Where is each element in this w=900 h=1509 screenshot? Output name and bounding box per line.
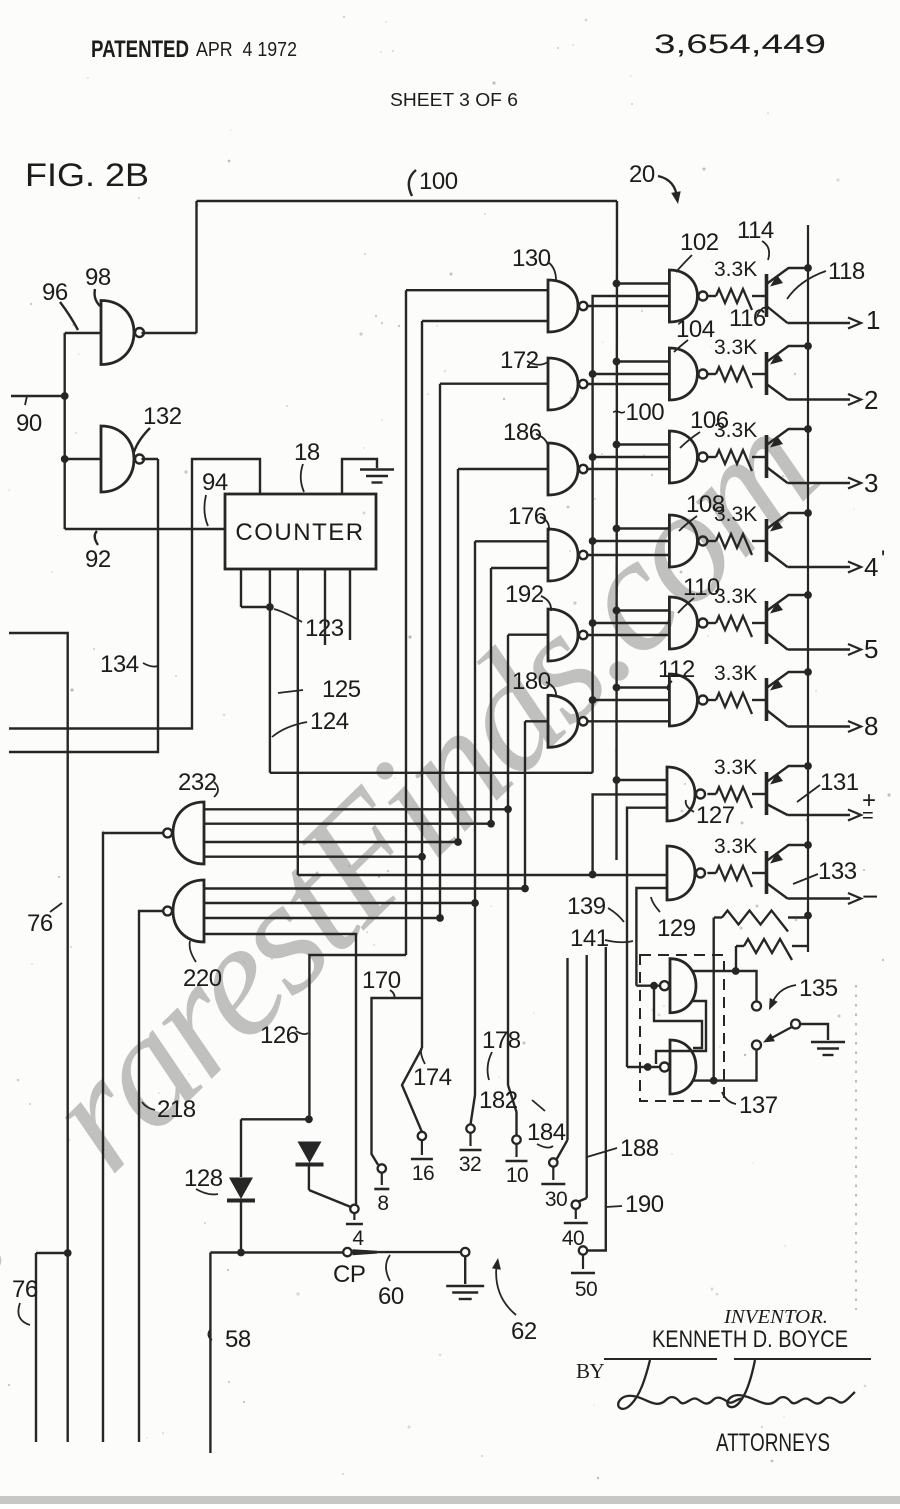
switch contact 30 (549, 1158, 557, 1166)
svg-text:3: 3 (864, 468, 878, 498)
leader 116 (757, 308, 766, 316)
junction 232 input 2 (487, 820, 495, 828)
svg-text:76: 76 (12, 1276, 38, 1303)
bus vertical from gate 186 input (457, 469, 459, 842)
wire 232 input 3 (204, 841, 458, 843)
svg-text:30: 30 (545, 1188, 567, 1211)
junction rail emitter row 110 (804, 591, 812, 599)
wire collector output row 127 (788, 814, 851, 816)
wire diode 126 to contact 4 (309, 1190, 351, 1207)
leader arrow 135 (771, 985, 796, 1006)
emitter arrow Q-129 (770, 852, 783, 864)
wire diode 128 anode (240, 1119, 242, 1177)
output arrow row 108 (848, 562, 861, 573)
svg-text:3.3K: 3.3K (714, 662, 757, 685)
wire resistor upper to latch B output (713, 918, 715, 1081)
wire gate 112 output to resistor (707, 699, 716, 701)
svg-text:APR 4 1972: APR 4 1972 (196, 39, 297, 61)
leader 114 (762, 241, 769, 260)
svg-text:4: 4 (352, 1227, 364, 1250)
svg-text:96: 96 (42, 279, 68, 306)
junction bus at gate 108 input 2 (589, 537, 597, 545)
wire collector output row 110 (788, 648, 851, 650)
leader label 123 (274, 609, 302, 622)
switch contact 50 (579, 1246, 587, 1254)
bus vertical from gate 176 input 1 (474, 541, 476, 1095)
svg-text:3.3K: 3.3K (714, 419, 757, 442)
svg-text:118: 118 (828, 258, 865, 285)
wire latch B output to switch (693, 1050, 757, 1081)
svg-text:132: 132 (143, 403, 182, 430)
wire gate 104 input 1 (617, 360, 670, 362)
wire gate 176 input 2 (491, 567, 548, 569)
wire 232 input 1 (204, 808, 508, 810)
emitter arrow Q-110 (770, 602, 783, 614)
wire from gate 98 output to wire 100 (195, 201, 197, 333)
transistor Q-106 (767, 429, 809, 483)
junction 220 input 1 (521, 885, 529, 893)
emitter arrow Q-112 (770, 679, 783, 691)
wire collector output row 129 (788, 897, 851, 899)
svg-text:5: 5 (864, 634, 878, 664)
transistor Q-127 (767, 766, 809, 815)
svg-text:~100: ~100 (612, 399, 664, 426)
wire 76 vertical (35, 1253, 37, 1442)
diode 128 (229, 1178, 253, 1200)
junction latch A input (650, 982, 658, 990)
junction bus 100 at gate 112 input 1 (613, 684, 621, 692)
bus vertical from gate 130 input 1 (405, 290, 407, 955)
emitter arrow Q-106 (770, 436, 783, 448)
wire resistor lower right lead (792, 945, 808, 947)
leader 129 (651, 897, 660, 912)
wire latch A input (636, 985, 660, 987)
arrowhead label 20 (671, 191, 681, 204)
wire gate 110 input 2 (593, 622, 670, 624)
wire counter pin 3 to gate 129 input 1 (298, 874, 667, 876)
svg-text:116: 116 (729, 305, 766, 332)
svg-text:232: 232 (178, 769, 217, 796)
junction resistor to latch B output (710, 1077, 718, 1085)
wire pin1 to pin2 (241, 606, 270, 608)
svg-text:184: 184 (527, 1119, 566, 1146)
svg-text:190: 190 (625, 1191, 664, 1218)
leader 182 (532, 1100, 545, 1111)
leader label 170 (390, 990, 395, 999)
leader 190 (606, 1206, 622, 1207)
ground 62 (446, 1286, 484, 1299)
svg-text:92: 92 (85, 546, 111, 573)
wire 94 (9, 459, 260, 729)
junction rail emitter row 112 (804, 668, 812, 676)
svg-text:KENNETH D. BOYCE: KENNETH D. BOYCE (652, 1326, 848, 1353)
wire gate 130 input 2 (422, 320, 548, 322)
junction rail emitter row 127 (804, 762, 812, 770)
switch 135 arm arrowhead (763, 1033, 775, 1042)
junction gate 132 input (61, 455, 69, 463)
svg-text:20: 20 (629, 161, 655, 188)
wire 76 branch (36, 1252, 68, 1254)
wire 188 diagonal to contact 40 (579, 1198, 587, 1202)
counter pin 5 stub (349, 569, 351, 640)
svg-text:100: 100 (419, 168, 458, 195)
leader 180 (546, 682, 556, 697)
switch 135 pivot (791, 1020, 800, 1029)
bus stub below 127 (615, 780, 617, 860)
junction node 123 (266, 603, 274, 611)
leader 112 (668, 681, 673, 690)
nand gate 108 (669, 515, 697, 567)
junction 220 input 4 (436, 914, 444, 922)
wire diode 126 down (308, 1165, 310, 1191)
leader 130 (548, 262, 556, 280)
junction rail emitter row 108 (804, 509, 812, 517)
wire latch cross-couple A to B (656, 1001, 706, 1064)
svg-text:8: 8 (377, 1192, 388, 1215)
leader label 125 (278, 690, 303, 693)
switch contact 16 (418, 1132, 426, 1140)
svg-text:58: 58 (225, 1326, 251, 1353)
wire resistor upper left lead (714, 916, 722, 918)
svg-text:10: 10 (506, 1164, 528, 1187)
contact 60 (461, 1248, 469, 1256)
nand gate 104 (669, 348, 697, 400)
wire 232 input 4 (204, 856, 422, 858)
resistor 3.3K row 112 (716, 693, 752, 714)
junction bus at gate 110 input 2 (589, 619, 597, 627)
leader label 124 (272, 722, 307, 737)
wire gate 127 input 1 (617, 779, 668, 781)
wire gate 192 output (587, 634, 669, 636)
wire gate 108 input 2 (593, 540, 670, 542)
ground counter (360, 470, 394, 483)
transistor Q-110 (767, 595, 809, 650)
svg-text:98: 98 (85, 264, 111, 291)
wire 132 output to left edge (9, 459, 158, 752)
leader label 98 (95, 289, 100, 306)
junction bus 100 at gate 104 input 1 (613, 358, 621, 366)
wire resistor to transistor base row 129 (752, 872, 767, 874)
nand gate 132 (101, 426, 134, 492)
resistor 3.3K row 102 (716, 289, 752, 310)
wire resistor upper right lead (788, 916, 808, 918)
wire 188 vertical (586, 955, 588, 1198)
wire 100 top horizontal (197, 200, 618, 202)
leader 137 (722, 1092, 736, 1104)
nand gate 180 (548, 695, 578, 747)
wire 178 diagonal to contact 32 (471, 1095, 476, 1124)
nand gate 172 (548, 358, 578, 410)
leader arrow label 20 (658, 176, 677, 199)
wire 220 input 4 to contact 4 (204, 934, 356, 1205)
wire collector output row 108 (788, 566, 851, 568)
svg-text:134: 134 (100, 651, 139, 678)
svg-text:COUNTER: COUNTER (235, 519, 364, 546)
leader 60 (386, 1255, 390, 1281)
svg-text:INVENTOR.: INVENTOR. (723, 1306, 828, 1328)
nand gate 127 (667, 767, 695, 821)
nand gate 130 (548, 280, 578, 332)
nand gate 186 (548, 443, 578, 495)
wire to diode 126 (309, 955, 406, 1119)
wire gate 176 input 1 (475, 540, 548, 542)
wire latch A output to switch (693, 971, 757, 1001)
transistor Q-104 (767, 346, 809, 400)
svg-text:=: = (862, 805, 873, 827)
svg-text:188: 188 (620, 1135, 659, 1162)
leader 110 (678, 598, 694, 613)
wire gate 232 output (103, 833, 164, 1442)
svg-text:4: 4 (864, 552, 878, 582)
svg-text:3.3K: 3.3K (714, 835, 757, 858)
wire resistor to transistor base row 110 (752, 622, 767, 624)
nand gate 232 (173, 802, 204, 864)
output arrow row 102 (848, 318, 861, 329)
wire gate 186 output (587, 468, 669, 470)
wire bus 124 to gate 102 input 2 (593, 296, 670, 773)
wire gate 106 input 1 (617, 443, 670, 445)
junction diodes (305, 1115, 313, 1123)
junction bus at 127 input 1 (613, 776, 621, 784)
svg-text:130: 130 (512, 245, 551, 272)
arrowhead 135 (769, 998, 778, 1010)
junction rail emitter row 129 (804, 841, 812, 849)
junction diode 128 CP line (237, 1249, 245, 1257)
switch contact 32 (466, 1124, 474, 1132)
leader 188 (587, 1148, 617, 1157)
output arrow row 112 (848, 721, 861, 732)
wire resistor to transistor base row 106 (752, 456, 767, 458)
wire 184 diagonal to contact 30 (557, 1140, 568, 1159)
wire gate 176 output (587, 554, 669, 556)
output arrow row 127 (848, 810, 861, 821)
diode 126 cathode bar (296, 1163, 324, 1167)
svg-text:178: 178 (482, 1027, 521, 1054)
leader 139 (608, 908, 624, 922)
emitter arrow Q-104 (770, 353, 783, 365)
wire gate 110 input 1 (617, 609, 670, 611)
svg-text:FIG. 2B: FIG. 2B (25, 157, 149, 193)
wire gate 129 output to resistor (707, 872, 716, 874)
svg-text:ATTORNEYS: ATTORNEYS (716, 1429, 830, 1457)
wire resistor to transistor base row 127 (752, 793, 767, 795)
wire gate 127 input 2 (593, 794, 667, 874)
counter box 18 (225, 494, 376, 569)
svg-text:102: 102 (680, 229, 719, 256)
svg-text:': ' (881, 546, 885, 571)
nand gate 112 (669, 674, 697, 726)
svg-text:76: 76 (27, 910, 53, 937)
output arrow row 106 (848, 478, 861, 489)
leader label 92 (95, 531, 98, 545)
svg-text:16: 16 (412, 1162, 434, 1185)
leader 128 (196, 1189, 218, 1194)
switch contact 10 (512, 1136, 520, 1144)
scan dotted line right (855, 985, 857, 1310)
wire CP to ground contact (377, 1251, 461, 1253)
wire resistor to transistor base row 108 (752, 540, 767, 542)
leader label 132 (134, 428, 150, 452)
svg-text:220: 220 (183, 965, 222, 992)
junction rail emitter row 106 (804, 425, 812, 433)
wire gate 102 output to resistor (707, 295, 716, 297)
wire 182 to contact 10 (508, 1085, 517, 1136)
wire 232 input 2 (204, 823, 491, 825)
watermark rarestFinds.com (9, 377, 850, 1204)
leader 184 (537, 1144, 553, 1148)
transistor Q-112 (767, 672, 809, 727)
svg-text:3.3K: 3.3K (714, 585, 757, 608)
junction node 90 (61, 392, 69, 400)
signature rule right (734, 1358, 871, 1360)
counter pin 3 wire (297, 569, 299, 875)
wire 170 to contact 8 (372, 998, 423, 1165)
counter pin 1 (240, 569, 242, 607)
wire resistor lower left lead (736, 945, 744, 947)
wire vertical 90 to 92 (63, 333, 65, 529)
scan band bottom (0, 1496, 900, 1504)
nand gate 102 (669, 270, 697, 322)
wire gate 98 output (142, 332, 197, 334)
svg-text:3.3K: 3.3K (714, 336, 757, 359)
wire input gate 98 (65, 332, 101, 334)
wire gate 110 output to resistor (707, 622, 716, 624)
svg-text:124: 124 (310, 708, 349, 735)
arrowhead 62 (492, 1258, 501, 1270)
wire gate 192 input (508, 634, 548, 636)
junction bus 100 at gate 110 input 1 (613, 607, 621, 615)
svg-text:141: 141 (570, 925, 609, 952)
svg-text:50: 50 (575, 1278, 597, 1301)
nand gate 129 (667, 846, 695, 900)
junction 232 input 3 (454, 838, 462, 846)
nand gate 192 (548, 609, 578, 661)
svg-text:170: 170 (362, 967, 401, 994)
leader label 90 (25, 396, 27, 405)
leader label 96 (60, 302, 78, 330)
dashed box around latch (640, 955, 724, 1101)
junction rail emitter row 104 (804, 342, 812, 350)
leader 176 (540, 517, 549, 531)
svg-text:104: 104 (676, 316, 715, 343)
wire switch 135 to ground (800, 1024, 828, 1040)
wire gate 108 input 1 (617, 527, 670, 529)
wire 139 gate 127 input 3 (627, 808, 667, 1067)
wire gate 108 output to resistor (707, 540, 716, 542)
svg-text:114: 114 (737, 217, 774, 244)
leader 218 (142, 1102, 155, 1110)
resistor 3.3K row 110 (716, 616, 752, 637)
wire gate 127 output to resistor (707, 793, 716, 795)
signature rule left (604, 1358, 717, 1360)
wire 124 horizontal from counter (270, 772, 593, 774)
wire resistor to transistor base row 104 (752, 373, 767, 375)
wire resistor to transistor base row 112 (752, 699, 767, 701)
svg-text:129: 129 (657, 915, 696, 942)
bus wire 174 vertical (421, 321, 423, 1048)
resistor 3.3K row 127 (716, 787, 752, 808)
wire gate 106 input 2 (593, 456, 670, 458)
wire gate 172 output (587, 383, 669, 385)
svg-text:174: 174 (413, 1064, 452, 1091)
leader 133 (793, 874, 818, 884)
svg-text:128: 128 (184, 1165, 223, 1192)
svg-text:60: 60 (378, 1283, 404, 1310)
wire diode 128 to CP line (240, 1201, 242, 1253)
svg-text:90: 90 (16, 410, 42, 437)
svg-text:3.3K: 3.3K (714, 503, 757, 526)
svg-text:BY: BY (576, 1359, 605, 1383)
switch 135 arm (766, 1027, 792, 1041)
leader 220 (190, 941, 196, 962)
wire 92 to counter (65, 528, 225, 530)
leader label 18 (301, 464, 304, 492)
leader label 76 (50, 903, 62, 912)
switch contact 40 (572, 1201, 580, 1209)
svg-text:180: 180 (512, 668, 551, 695)
svg-text:CP: CP (333, 1261, 365, 1288)
junction bus 100 at gate 108 input 1 (613, 525, 621, 533)
transistor Q-108 (767, 513, 809, 567)
junction bus at gate 104 input 2 (589, 370, 597, 378)
svg-text:126: 126 (260, 1022, 299, 1049)
leader label 76 lower (18, 1303, 30, 1325)
svg-text:186: 186 (503, 419, 542, 446)
leader 127 (686, 800, 694, 812)
leader 232 (214, 782, 218, 797)
nand gate 106 (669, 431, 697, 483)
junction 232 input 1 (504, 805, 512, 813)
wire resistor to transistor base row 102 (752, 295, 767, 297)
wire contact 60 to ground (464, 1257, 466, 1285)
output arrow row 110 (848, 644, 861, 655)
bus vertical from gate 172 input (439, 384, 441, 918)
svg-text:182: 182 (479, 1087, 518, 1114)
junction bus at gate 106 input 2 (589, 453, 597, 461)
svg-text:1: 1 (866, 305, 880, 335)
wire gate 130 input 1 (406, 289, 548, 291)
leader label 134 (143, 663, 158, 667)
svg-text:135: 135 (799, 975, 838, 1002)
junction bus 100 at gate 106 input 1 (613, 441, 621, 449)
junction resistor to latch A output (732, 967, 740, 975)
counter pin 2 wire 125 (269, 569, 271, 773)
wire 220 input 3 (204, 917, 440, 919)
svg-text:SHEET 3 OF 6: SHEET 3 OF 6 (390, 90, 518, 110)
signature Townsend and Townsend (618, 1360, 743, 1409)
nand gate 220 (173, 880, 204, 942)
junction at 129 input line (589, 871, 597, 879)
wire latch cross-couple B to A (654, 988, 702, 1048)
wire gate 102 input 1 (617, 282, 670, 284)
svg-text:−: − (862, 881, 878, 912)
nand gate 98 (101, 301, 134, 365)
resistor 3.3K row 129 (716, 866, 752, 887)
svg-text:131: 131 (820, 769, 859, 796)
svg-text:18: 18 (294, 439, 320, 466)
leader 186 (536, 434, 548, 447)
switch contact 8 (378, 1164, 386, 1172)
bus vertical from gate 176 input 2 (490, 568, 492, 824)
junction rail emitter row 102 (804, 264, 812, 272)
wire gate 132 output (142, 458, 159, 460)
wire collector output row 104 (788, 398, 851, 400)
leader 102 (676, 255, 692, 272)
wire 174 bend to contact 16 (402, 1048, 422, 1132)
wire gate 112 input 2 (593, 699, 670, 701)
wire gate 220 output 218 (139, 911, 164, 1442)
emitter arrow Q-127 (770, 773, 783, 785)
